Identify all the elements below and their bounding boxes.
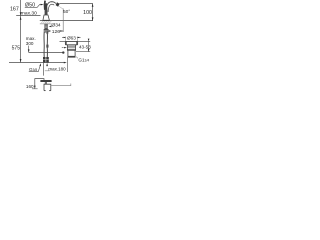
pop-up rod link to bottom view [35, 79, 44, 89]
160 bottom tick [32, 88, 38, 90]
faucet lever stem [44, 1, 46, 4]
hose length reference line [29, 52, 64, 54]
dot at end of hose length line [62, 51, 64, 53]
leader from tip to angle label [59, 6, 63, 9]
waste flange [65, 41, 77, 44]
actuator tee body [44, 84, 51, 90]
arrow down at bottom line [20, 59, 22, 62]
svg-text:100: 100 [83, 10, 92, 16]
waste body thread block [67, 45, 75, 50]
up arrow under right hose nut [46, 63, 48, 66]
svg-text:167: 167 [10, 7, 19, 13]
spout tip vertical reference line [62, 9, 64, 33]
Ø63 extension line right [76, 36, 78, 41]
svg-text:G3/8: G3/8 [29, 67, 37, 72]
label G1 1/4 with leader [76, 57, 78, 59]
svg-text:Ø63: Ø63 [67, 35, 76, 40]
dimension 100 vertical line [92, 4, 94, 21]
vertical extension at waste center [66, 58, 68, 73]
arrow up from below tick [20, 17, 22, 20]
deck line [40, 20, 93, 22]
waste deck line right [78, 40, 91, 42]
left vertical dimension line [20, 0, 22, 62]
deck hatching [41, 21, 52, 24]
160 bottom arrow [34, 86, 36, 89]
mounting nut [44, 29, 49, 33]
leader under Ø50 [25, 5, 42, 8]
spout height reference line [60, 3, 94, 5]
faucet handle knob [44, 3, 48, 10]
pop-up rod: vertical below nut [43, 63, 45, 76]
svg-text:160: 160 [26, 84, 34, 89]
hose crimp at shank exit [47, 33, 49, 35]
svg-text:50°: 50° [63, 9, 70, 14]
spout aerator tip [56, 2, 60, 6]
svg-text:126: 126 [52, 29, 60, 35]
faucet spout inner arc [48, 4, 54, 12]
bottom reference line [9, 62, 65, 64]
waste deck line left [60, 40, 66, 42]
100 top arrow [92, 4, 94, 7]
rod end tick [70, 84, 72, 87]
short line under up arrow [45, 70, 50, 72]
max.300 arrow down [28, 46, 30, 53]
svg-text:43-53: 43-53 [79, 45, 91, 50]
hose fitting on right hose [46, 45, 48, 48]
bottom view: top bar of actuator [40, 80, 52, 82]
svg-text:300: 300 [26, 41, 34, 46]
Ø50 leader arrowhead [41, 4, 44, 6]
Ø34 leader arrow [49, 26, 52, 28]
svg-text:Ø34: Ø34 [51, 23, 61, 29]
svg-text:575: 575 [12, 45, 21, 51]
dimension 43-53 [88, 41, 90, 51]
Ø63 extension line left [65, 36, 67, 41]
lower extension for 43-53 [76, 51, 90, 53]
126 left arrow [47, 30, 50, 32]
right arrow at end of bottom line [64, 62, 67, 64]
faucet base rosette [43, 15, 50, 20]
max.30 underline / tick across dim line [16, 15, 40, 17]
background [0, 0, 100, 100]
Ø63 left arrow [62, 36, 65, 38]
horizontal rod [51, 85, 71, 87]
arrow down to 15.5 tick [20, 12, 22, 15]
svg-text:max.180: max.180 [48, 67, 66, 72]
faucet spout outer arc [46, 2, 56, 12]
100 bottom arrow [92, 17, 94, 20]
Ø63 right arrow [78, 36, 81, 38]
tee body feet [44, 90, 46, 92]
svg-text:G11/4: G11/4 [78, 57, 89, 62]
supply hoses [43, 32, 45, 57]
arrow pointing right at waste body [62, 47, 64, 49]
actuator stem [45, 82, 47, 84]
deck bottom line [40, 23, 52, 25]
faucet body [45, 10, 48, 16]
threaded shank [44, 24, 47, 29]
126 right arrow [60, 30, 63, 32]
hose end nuts [43, 57, 46, 62]
G3/8 underline leader [29, 65, 41, 71]
waste body lower [68, 50, 75, 57]
